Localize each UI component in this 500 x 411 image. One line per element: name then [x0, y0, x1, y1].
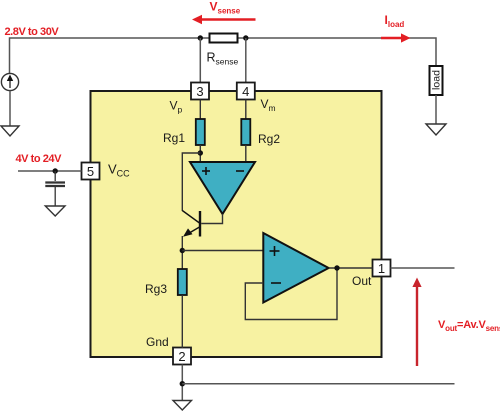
svg-text:1: 1	[378, 261, 385, 276]
current source I1	[1, 73, 18, 90]
ground (below load)	[426, 124, 446, 135]
svg-text:Out: Out	[352, 274, 372, 288]
resistor Rg2	[241, 119, 250, 145]
ground (bottom)	[173, 401, 192, 411]
op-amp U1 (top, pointing down)	[190, 162, 255, 214]
node Vp junction	[198, 150, 203, 155]
resistor load	[430, 66, 443, 95]
wire Rg1 to op-amp	[199, 145, 201, 162]
resistor R sense	[210, 34, 238, 43]
wire op-amp2 output to pin 1	[329, 267, 373, 269]
ground (below current source)	[1, 126, 19, 136]
node on top rail right of R sense	[243, 35, 248, 40]
svg-text:4V to 24V: 4V to 24V	[16, 153, 63, 165]
svg-text:4: 4	[242, 84, 249, 99]
wire current source to ground	[9, 91, 11, 126]
wire base to op-amp output	[201, 214, 222, 224]
capacitor C1	[45, 171, 65, 206]
transistor Q1	[182, 211, 200, 237]
wire top supply rail	[10, 38, 437, 73]
svg-text:Gnd: Gnd	[146, 335, 169, 349]
node on top rail left of R sense	[198, 35, 203, 40]
wire pin1 to right	[391, 267, 455, 269]
wire load to ground	[435, 95, 437, 124]
svg-text:2.8V to 30V: 2.8V to 30V	[5, 26, 60, 38]
op-amp U2 (pointing right)	[263, 233, 328, 303]
arrow V sense	[192, 0, 256, 24]
svg-text:2: 2	[178, 349, 185, 364]
svg-text:Rg3: Rg3	[145, 282, 167, 296]
svg-text:3: 3	[196, 84, 203, 99]
pin 4	[237, 83, 255, 100]
wire node to pin 4	[245, 38, 247, 83]
node emitter junction	[180, 248, 185, 253]
wire emitter down	[181, 236, 183, 269]
pin 1	[373, 260, 391, 277]
pin 3	[191, 83, 209, 100]
ground (below capacitor)	[45, 206, 65, 216]
wire pin3 to Rg1	[199, 100, 201, 120]
wire Rg3 to pin2	[181, 295, 183, 348]
wire node to pin 3	[199, 38, 201, 83]
svg-text:5: 5	[87, 164, 94, 179]
node bottom junction	[180, 381, 185, 386]
svg-text:Rg2: Rg2	[258, 132, 280, 146]
wire pin4 to Rg2	[245, 100, 247, 120]
pin 5	[82, 163, 100, 180]
arrow I load	[381, 13, 411, 43]
wire Vp node to collector	[182, 153, 200, 211]
wire Vcc rail	[18, 170, 82, 172]
pin 2	[173, 348, 191, 365]
IC body U1 (yellow block)	[91, 91, 382, 357]
resistor Rg1	[196, 119, 205, 145]
wire Rg2 to op-amp	[245, 145, 247, 162]
svg-text:load: load	[431, 70, 443, 90]
wire bottom rail	[182, 383, 454, 385]
wire emitter node to op-amp2 plus input	[182, 250, 263, 252]
wire pin2 to bottom rail	[181, 365, 183, 401]
node output junction	[334, 265, 339, 270]
svg-text:Rg1: Rg1	[163, 131, 185, 145]
wire feedback loop	[245, 268, 337, 320]
resistor Rg3	[178, 269, 187, 295]
node Vcc junction	[53, 168, 58, 173]
arrow V out	[412, 278, 500, 367]
